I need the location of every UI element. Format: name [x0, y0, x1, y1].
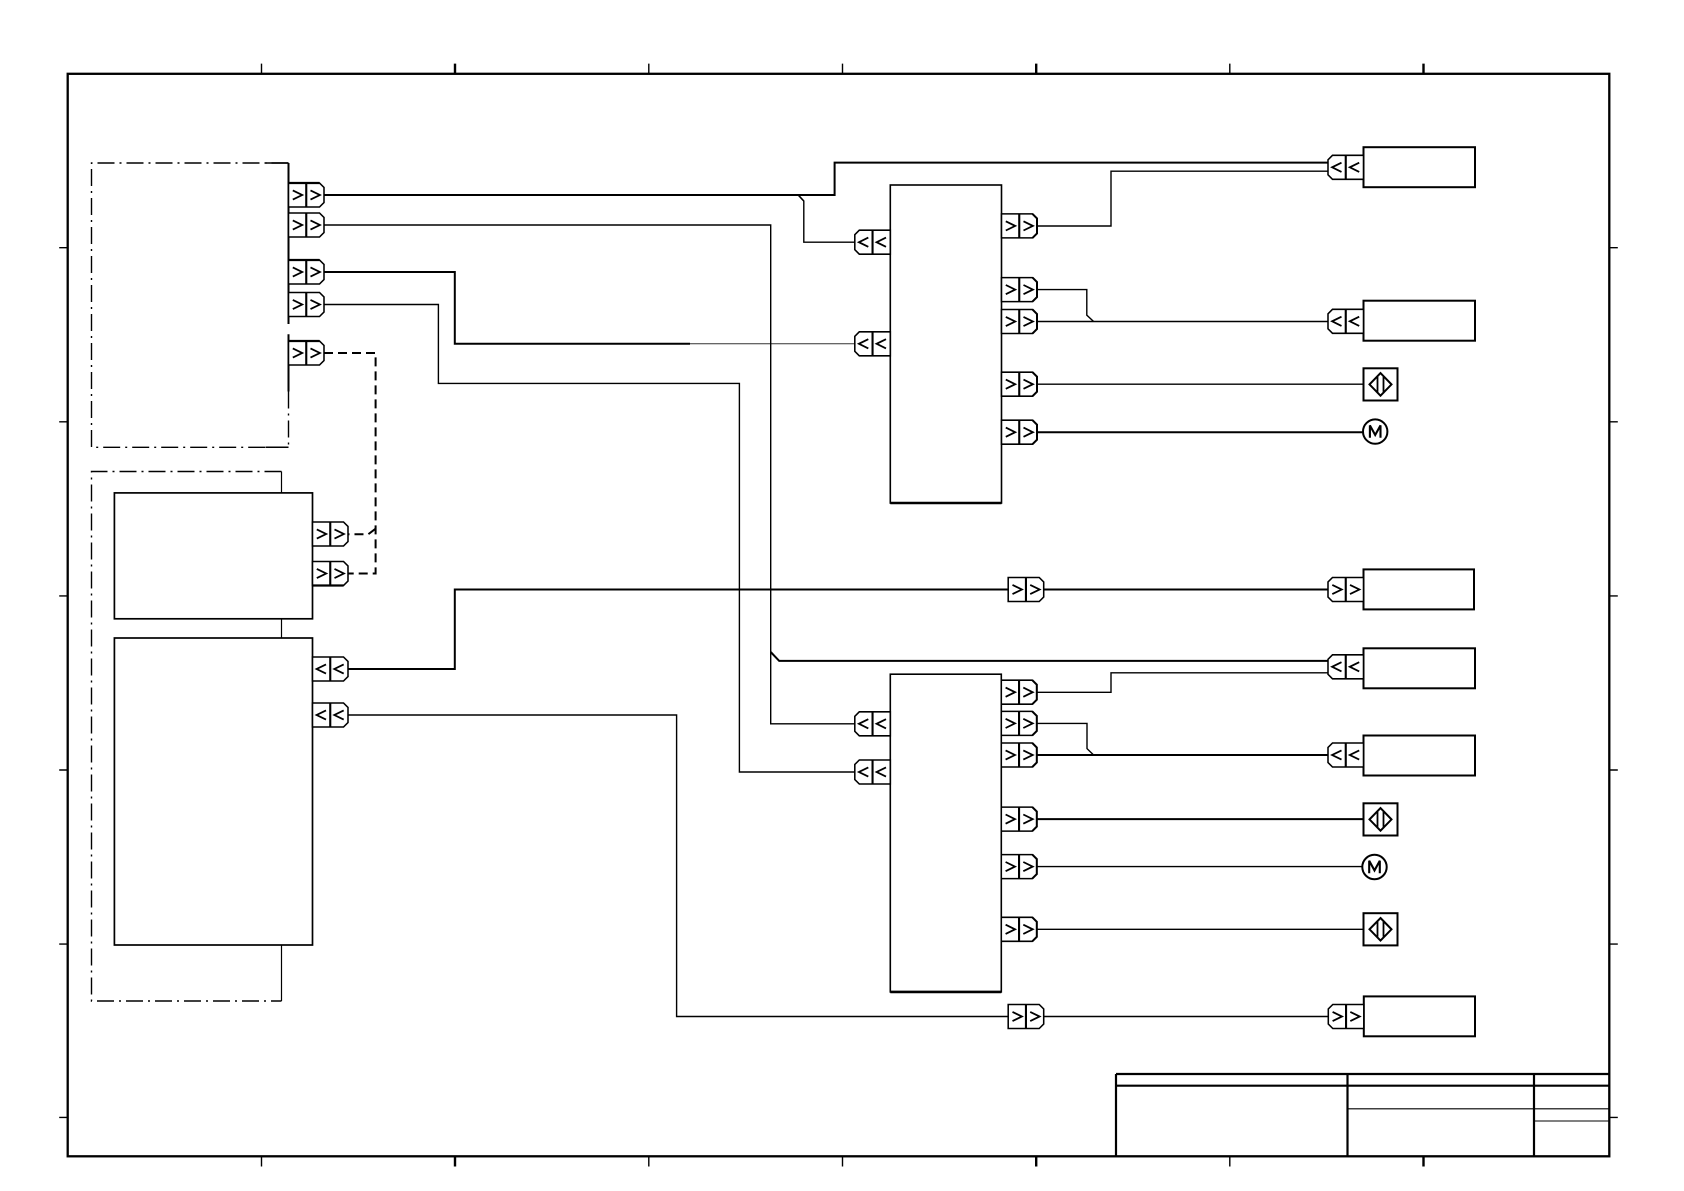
connector pair U1-L2 [855, 332, 891, 356]
device box E3 [1364, 648, 1476, 688]
device box E2 [1364, 301, 1476, 341]
wire W3: H1 pin2 to ECU U2 pin L1 [324, 225, 855, 724]
wire W16: ECU U2 pin R4 to valve V2 [1037, 818, 1363, 820]
control unit B (in harness H2) [114, 638, 312, 945]
wire W4: branch from W3 to device box E3 [771, 652, 1328, 661]
connector pair U1-L1 [855, 230, 891, 254]
connector pair E4-in [1328, 743, 1364, 767]
wire W9: ECU U1 pin R2 merge into W10 [1037, 290, 1094, 322]
device box E6 [1364, 996, 1475, 1036]
title block [1116, 1074, 1609, 1156]
ECU U1 [890, 185, 1001, 503]
wire W20: inline connector S1 to device box E5 [1044, 589, 1329, 591]
connector pair U2-R5 [1001, 855, 1037, 879]
wire W18: ECU U2 pin R6 to valve V3 [1037, 928, 1363, 930]
device box E5 [1364, 569, 1475, 609]
connector pair U1-R3 [1002, 310, 1038, 334]
harness boundary H2 (dash-dot) [92, 472, 282, 1002]
solenoid valve V2 [1364, 803, 1398, 835]
device box E1 [1364, 147, 1476, 187]
connector pair H1-4 [289, 293, 325, 317]
wire W5: H1 pin3 to ECU U1 pin L2 [324, 272, 690, 344]
wire W11: ECU U1 pin R4 to valve V1 [1037, 383, 1363, 385]
motor M1 [1363, 419, 1387, 443]
connector pair U2-L2 [855, 760, 891, 784]
control unit A (in harness H2) [114, 493, 312, 619]
solenoid valve V1 [1364, 368, 1398, 400]
wire W1: H1 pin1 to device box E1 (power feed) [324, 163, 1328, 195]
wire W6: H1 pin4 to ECU U2 pin L2 [324, 305, 855, 773]
connector pair U2-R3 [1001, 743, 1037, 767]
connector pair U1-R1 [1002, 214, 1038, 238]
connector pair U2-L1 [855, 712, 891, 736]
wire W13: ECU U2 pin R1 to device box E3 [1037, 673, 1328, 693]
connector pair E2-in [1328, 309, 1364, 333]
wire W17: ECU U2 pin R5 to motor M2 [1037, 866, 1363, 868]
wire W15: ECU U2 pin R3 to device box E4 [1037, 754, 1328, 756]
connector pair U1-R2 [1002, 278, 1038, 302]
inline connector pair S1 [1008, 578, 1043, 602]
ECU U2 [890, 674, 1001, 992]
connector pair E5-in [1328, 578, 1364, 602]
wire W19: box B pin1 to inline connector pair S1 [348, 590, 1008, 670]
connector pair H1-3 [289, 260, 325, 284]
connector pair E6-in [1328, 1005, 1364, 1029]
harness boundary H1 (dash-dot) [92, 163, 289, 447]
connector pair B-2 [313, 703, 349, 727]
connector pair A-2 [313, 562, 349, 586]
connector pair U1-R5 [1002, 420, 1038, 444]
connector pair U1-R4 [1002, 372, 1038, 396]
wire W21: box B pin2 to inline connector pair S2 [348, 715, 1008, 1017]
connector pair H1-2 [289, 213, 325, 237]
connector pair E3-in [1328, 655, 1364, 679]
wire W2: branch from W1 to ECU U1 pin L1 [798, 195, 855, 242]
connector pair H1-5 [289, 341, 325, 365]
device box E4 [1364, 736, 1476, 776]
wire W14: ECU U2 pin R2 merge into W15 [1037, 723, 1094, 755]
inline connector pair S2 [1008, 1005, 1043, 1029]
wire W22: inline connector S2 to device box E6 [1044, 1016, 1329, 1018]
wire W8: ECU U1 pin R1 to device box E1 [1037, 171, 1328, 226]
connector pair B-1 [313, 657, 349, 681]
connector pair U2-R2 [1001, 711, 1037, 735]
connector pair A-1 [313, 522, 349, 546]
connector pair E1-in [1328, 155, 1364, 179]
connector pair H1-1 [289, 183, 325, 207]
connector pair U2-R6 [1001, 917, 1037, 941]
wire W7 (dashed): H1 pin5 to box A pins 1,2 [324, 353, 376, 574]
solenoid valve V3 [1364, 913, 1398, 945]
junction J1: slant tap of W2 on W1 [798, 195, 804, 201]
connector pair U2-R4 [1001, 807, 1037, 831]
motor M2 [1362, 855, 1386, 879]
connector pair U2-R1 [1001, 680, 1037, 704]
wire W10: ECU U1 pin R3 to device box E2 [1037, 321, 1328, 323]
wire W12: ECU U1 pin R5 to motor M1 [1037, 431, 1363, 433]
